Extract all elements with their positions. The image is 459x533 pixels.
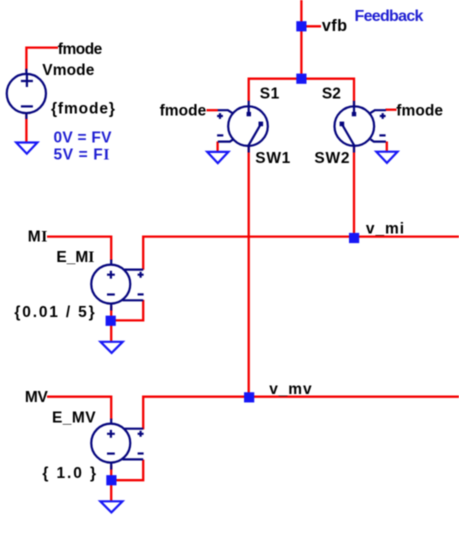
wire top rail to S1/S2 (249, 79, 354, 108)
wire Vmode top to fmode (26, 48, 58, 72)
ground SW1 (207, 152, 228, 163)
wire net v_mv horizontal (143, 397, 459, 430)
junction E_MI bottom (106, 316, 116, 326)
switch SW1 (217, 101, 268, 153)
svg-text:5V = FI: 5V = FI (54, 147, 111, 164)
wire SW2 output down to v_mi (353, 147, 355, 238)
wire E_MV bottom to ground (110, 465, 112, 502)
svg-text:MV: MV (25, 389, 49, 406)
svg-text:v_mi: v_mi (366, 220, 405, 237)
svg-text:SW2: SW2 (314, 150, 350, 167)
voltage source Vmode (7, 69, 46, 119)
svg-text:S2: S2 (322, 85, 341, 102)
switch SW2 (335, 101, 386, 153)
junction vfb (296, 21, 306, 31)
svg-text:0V = FV: 0V = FV (54, 129, 113, 146)
svg-text:fmode: fmode (160, 102, 207, 119)
E source E_MV (91, 419, 143, 470)
svg-text:vfb: vfb (322, 17, 347, 35)
svg-text:fmode: fmode (58, 41, 103, 58)
wire fmode stub to SW2 + (386, 109, 397, 111)
wire net v_mi horizontal (143, 237, 459, 270)
junction v_mv (244, 392, 254, 402)
ground SW2 (376, 152, 397, 163)
junction E_MV bottom (106, 475, 116, 485)
svg-text:S1: S1 (260, 85, 280, 102)
wire E_MV minus control loop (115, 460, 143, 481)
svg-text:MI: MI (28, 228, 48, 245)
junction v_mi (349, 233, 359, 243)
junction top rail (296, 74, 306, 84)
wire fmode stub to SW1 + (207, 109, 219, 111)
wire vfb vertical (net Feedback) (300, 0, 302, 80)
ground E_MI (101, 342, 123, 353)
svg-text:SW1: SW1 (255, 150, 291, 167)
E source E_MI (91, 260, 143, 311)
ground E_MV (100, 501, 122, 512)
wire SW1 - to ground (216, 142, 218, 153)
wire MV to E_MV top (47, 397, 111, 420)
svg-text:E_MV: E_MV (52, 409, 96, 426)
ground Vmode (16, 143, 37, 154)
wire Vmode bottom to ground (25, 115, 27, 144)
wire E_MI bottom to ground (110, 306, 112, 342)
svg-text:v_mv: v_mv (269, 381, 312, 398)
svg-text:E_MI: E_MI (56, 249, 94, 266)
svg-text:fmode: fmode (396, 102, 443, 119)
svg-text:{ 1.0 }: { 1.0 } (42, 465, 98, 482)
wire MI to E_MI top (47, 237, 111, 260)
wire SW1 output down to v_mv (248, 147, 250, 399)
wire SW2 - to ground (386, 142, 388, 153)
wire E_MI minus control loop (115, 300, 143, 321)
svg-text:{0.01 / 5}: {0.01 / 5} (14, 304, 96, 321)
svg-text:Feedback: Feedback (355, 8, 424, 25)
svg-text:{fmode}: {fmode} (51, 101, 116, 118)
svg-text:Vmode: Vmode (42, 62, 94, 79)
wire vfb label stub (300, 25, 321, 27)
